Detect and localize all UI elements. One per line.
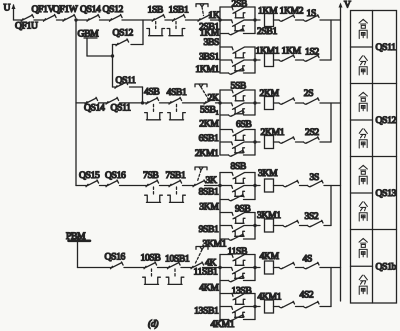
wire rung2 seg4 group 3	[324, 225, 331, 227]
wire rail B lower group 4	[254, 294, 256, 320]
wire branch mid right group 3	[244, 185, 255, 187]
wire QS11 row right	[130, 86, 143, 88]
contact aux rung1 group 3	[283, 180, 299, 186]
wire branch mid group 4	[220, 267, 232, 269]
wire rung2 seg1 group 1	[255, 59, 260, 61]
wire branch mid group 1	[220, 19, 232, 21]
button actuator 4K	[196, 247, 208, 250]
coil 4KM	[265, 261, 274, 274]
wire PBM drop	[77, 241, 79, 268]
wire rail B upper group 2	[254, 90, 256, 115]
svg-text:1KM2: 1KM2	[280, 5, 304, 16]
wire top bus seg6	[122, 19, 152, 21]
contact 1K	[198, 14, 211, 21]
wire branch mid2 left group 3	[220, 225, 232, 227]
wire branch top1 left group 2	[220, 89, 232, 91]
button actuator 2K	[195, 84, 207, 87]
contact 1S	[304, 15, 320, 21]
switch contact QS14	[87, 14, 100, 21]
wire corner drop group 1	[330, 20, 332, 60]
wire corner drop group 4	[330, 268, 332, 307]
wire feed3 seg4	[160, 185, 170, 187]
wire feed2 seg1	[76, 102, 85, 104]
wire rail A group 1	[219, 7, 221, 73]
wire branch top2 right group 4	[245, 293, 256, 295]
wire branch mid2 left group 4	[220, 306, 232, 308]
svg-text:QF1U: QF1U	[15, 21, 38, 32]
wire feed3 seg1	[76, 185, 86, 187]
wire branch mid right group 4	[244, 267, 255, 269]
breaker contact QF1V	[44, 14, 57, 21]
svg-text:8SB1: 8SB1	[199, 187, 219, 198]
svg-text:2KM: 2KM	[260, 88, 280, 99]
svg-text:2S: 2S	[304, 88, 313, 99]
svg-text:13SB: 13SB	[232, 285, 252, 296]
wire top bus seg10	[220, 19, 232, 21]
contact aux rung1 group 4	[279, 262, 295, 268]
wire branch top2 left group 3	[220, 212, 232, 214]
svg-text:5SB: 5SB	[231, 80, 246, 91]
svg-text:3S2: 3S2	[305, 211, 319, 222]
contact rung2 group 1	[279, 55, 295, 61]
wire feed3 seg6	[205, 185, 221, 187]
pushbutton top2 group 2	[232, 130, 244, 136]
wire GBM to mid rail	[87, 55, 113, 57]
svg-text:9SB: 9SB	[235, 204, 250, 215]
wire top bus seg7	[165, 19, 173, 21]
wire branch top1 left group 1	[220, 6, 232, 8]
wire branch top2 left group 1	[220, 46, 232, 48]
junction QS11row/feed2	[141, 101, 144, 104]
switch contact QS16 feed4	[111, 262, 124, 269]
wire branch bot1 left group 3	[220, 199, 229, 201]
svg-text:11SB1: 11SB1	[193, 267, 218, 278]
svg-text:3KM: 3KM	[258, 168, 278, 179]
svg-text:4S2: 4S2	[300, 289, 314, 300]
wire rail B lower group 3	[254, 213, 256, 240]
relay contact bot1 group 4	[229, 275, 245, 281]
wire rung1 seg4 group 2	[320, 102, 341, 104]
svg-text:3KM1: 3KM1	[257, 210, 281, 221]
contact rung2 group 4	[279, 301, 295, 307]
wire QS11 row	[113, 86, 116, 88]
table group divider y229.5	[351, 229, 397, 231]
svg-text:QS12: QS12	[103, 4, 124, 15]
wire rail A group 2	[219, 90, 221, 155]
wire branch bot2 right group 3	[244, 238, 256, 240]
wire branch mid2 right group 1	[244, 59, 255, 61]
wire branch bot2 right group 1	[244, 72, 256, 74]
wire rail B upper group 3	[254, 173, 256, 200]
junction rail B feed group 2	[253, 101, 256, 104]
wire rung2 seg3 group 3	[300, 225, 308, 227]
coil 2KM1	[265, 136, 274, 149]
wire branch top1 right group 1	[245, 6, 256, 8]
svg-text:1KM1: 1KM1	[195, 64, 219, 75]
wire branch bot1 right group 1	[244, 33, 256, 35]
wire top bus seg3	[57, 19, 64, 21]
svg-text:6SB1: 6SB1	[199, 133, 219, 144]
contact 3K	[193, 180, 206, 187]
svg-text:1KM: 1KM	[258, 5, 278, 16]
wire branch bot2 left group 4	[220, 319, 229, 321]
wire branch bot1 left group 1	[220, 33, 229, 35]
table cell close (he-zha) group 1	[359, 19, 367, 28]
wire QS12 row right	[131, 44, 143, 46]
svg-text:1S2: 1S2	[305, 47, 319, 58]
svg-text:4KM1: 4KM1	[258, 291, 282, 302]
wire branch bot1 left group 2	[220, 114, 229, 116]
pushbutton 4SB	[146, 97, 159, 104]
wire feed3 seg2	[100, 185, 107, 187]
wire rung1 seg4 group 4	[320, 267, 341, 269]
wire top bus seg2	[34, 19, 44, 21]
switch contact QS16	[106, 180, 119, 187]
table cell open (fen-zha) group 1	[359, 56, 367, 65]
wire rung2 seg4 group 4	[320, 306, 331, 308]
wire rung1 seg1 group 1	[255, 19, 260, 21]
wire rung1 seg2 group 4	[274, 267, 280, 269]
pushbutton mid group 4	[232, 268, 244, 274]
svg-text:10SB: 10SB	[141, 253, 161, 264]
pushbutton mid group 2	[232, 103, 244, 109]
wire rung1 seg2 group 1	[274, 19, 280, 21]
junction rail B rung2 group 2	[253, 140, 256, 143]
table cell open (fen-zha) group 3	[359, 202, 367, 211]
wire feed2 seg3	[120, 102, 147, 104]
svg-text:QF1V: QF1V	[32, 4, 55, 15]
contact 2S	[304, 98, 320, 104]
pushbutton 4SB1	[169, 97, 182, 104]
wire rung2 seg2 group 4	[274, 306, 280, 308]
pushbutton 10SB1	[168, 262, 181, 269]
pushbutton mid2 group 3	[232, 226, 244, 232]
svg-text:(d): (d)	[148, 319, 158, 330]
svg-text:2KM1: 2KM1	[261, 127, 285, 138]
pushbutton mid2 group 1	[232, 60, 244, 66]
wire branch top1 right group 3	[245, 172, 256, 174]
switch contact QS12	[110, 14, 123, 21]
wire top bus seg9	[211, 19, 221, 21]
pushbutton 1SB	[152, 14, 165, 21]
wire right bus V	[340, 7, 342, 301]
table sub divider y47.0	[351, 46, 373, 48]
wire rung1 seg2 group 3	[274, 185, 284, 187]
contact 4K	[191, 262, 204, 269]
coil 3KM	[265, 179, 274, 192]
svg-text:1KM1: 1KM1	[256, 45, 280, 56]
table cell open (fen-zha) group 4	[359, 275, 367, 284]
wire rung1 seg4 group 3	[324, 185, 341, 187]
svg-text:4SB1: 4SB1	[167, 87, 187, 98]
wire rung1 seg1 group 4	[255, 267, 260, 269]
wire branch bot1 left group 4	[220, 280, 229, 282]
wire branch mid right group 2	[244, 102, 255, 104]
wire rung2 seg1 group 3	[255, 225, 260, 227]
pushbutton mid2 group 2	[232, 142, 244, 148]
junction rail B feed group 1	[253, 18, 256, 21]
relay contact bot2 group 2	[229, 150, 245, 156]
svg-text:2SB: 2SB	[232, 0, 247, 9]
junction rail B rung2 group 4	[253, 305, 256, 308]
wire rung2 seg3 group 1	[296, 59, 304, 61]
svg-text:QS14: QS14	[84, 102, 105, 113]
wire rung2 seg4 group 2	[320, 141, 331, 143]
wire feed2 seg4	[160, 102, 170, 104]
wire branch mid group 2	[220, 102, 232, 104]
contact 1KM2 rung1 group 1	[279, 15, 295, 21]
wire branch top2 right group 3	[245, 212, 256, 214]
svg-text:QS11: QS11	[376, 42, 397, 53]
wire drop to feed2 x142.5	[142, 87, 144, 103]
switch contact QS12 row2	[116, 39, 129, 46]
contact rung2 group 2	[279, 137, 295, 143]
pushbutton top2 group 4	[232, 294, 244, 300]
wire branch bot1 right group 2	[244, 114, 256, 116]
contact 3S2	[308, 220, 324, 226]
svg-text:3KM: 3KM	[199, 202, 219, 213]
wire feed3 seg5	[183, 185, 194, 187]
wire rail B lower group 1	[254, 47, 256, 73]
switch contact QS11 row3	[115, 81, 128, 88]
wire branch mid2 left group 2	[220, 141, 232, 143]
wire rung1 seg3 group 4	[296, 267, 304, 269]
wire rung2 seg3 group 4	[296, 306, 304, 308]
svg-text:5SB₁: 5SB₁	[200, 105, 218, 116]
breaker contact QF1U	[21, 14, 34, 21]
wire rung1 seg3 group 3	[300, 185, 308, 187]
wire branch mid2 right group 3	[244, 225, 255, 227]
wire branch top1 left group 3	[220, 172, 232, 174]
pushbutton 8SB	[232, 173, 244, 179]
wire rung1 seg4 group 1	[320, 19, 341, 21]
svg-text:1S: 1S	[307, 8, 316, 19]
wire U arrow riser	[13, 5, 15, 20]
svg-text:1K: 1K	[208, 10, 219, 21]
wire rung1 seg3 group 2	[296, 102, 304, 104]
svg-text:4KM: 4KM	[199, 283, 219, 294]
pushbutton 7SB	[146, 180, 159, 187]
svg-text:4KM1: 4KM1	[211, 319, 235, 330]
svg-text:11SB: 11SB	[228, 246, 248, 257]
wire rung2 seg1 group 2	[255, 141, 260, 143]
svg-text:3K: 3K	[206, 175, 217, 186]
table group divider y83.5	[351, 83, 397, 85]
relay contact bot1 group 1	[229, 28, 245, 34]
relay contact bot2 group 4	[229, 314, 245, 320]
svg-text:QS15: QS15	[79, 170, 100, 181]
svg-text:7SB: 7SB	[143, 170, 158, 181]
wire top bus seg1	[14, 19, 22, 21]
junction rail B feed group 4	[253, 266, 256, 269]
svg-text:QS14: QS14	[80, 4, 101, 15]
wire top bus seg11	[245, 19, 256, 21]
button actuator 1K	[196, 4, 208, 7]
wire branch bot2 right group 4	[244, 319, 256, 321]
svg-text:3BS: 3BS	[204, 37, 219, 48]
wire rail B upper group 1	[254, 7, 256, 34]
svg-text:8SB: 8SB	[231, 161, 246, 172]
svg-text:10SB1: 10SB1	[165, 254, 190, 265]
wire corner drop group 3	[330, 186, 332, 226]
coil 4KM1	[265, 300, 274, 313]
svg-text:4KM: 4KM	[260, 251, 280, 262]
wire rung2 seg4 group 1	[320, 59, 331, 61]
wire rung2 seg2 group 3	[274, 225, 284, 227]
svg-text:QS16: QS16	[105, 252, 126, 263]
svg-text:QS12: QS12	[376, 115, 397, 126]
svg-text:V: V	[344, 0, 351, 11]
contact 4S	[304, 262, 320, 268]
table sub divider y266.2	[351, 265, 373, 267]
table sub divider y120.0	[351, 119, 373, 121]
wire rung1 seg2 group 2	[274, 102, 280, 104]
wire feed4 seg2	[124, 267, 144, 269]
svg-text:QS11: QS11	[116, 75, 137, 86]
contact 2K	[204, 97, 217, 104]
svg-text:U: U	[4, 3, 11, 14]
pushbutton 11SB	[232, 255, 244, 261]
wire feed4 seg5	[203, 267, 221, 269]
wire riser to bus x143	[142, 20, 144, 45]
wire branch mid group 3	[220, 185, 232, 187]
svg-text:2KM: 2KM	[199, 119, 219, 130]
junction rail A feed group 3	[218, 184, 221, 187]
switch contact QS15	[86, 180, 99, 187]
junction rail B rung2 group 3	[253, 224, 256, 227]
wire feed2 seg5	[183, 102, 205, 104]
pushbutton 5SB	[232, 90, 244, 96]
svg-text:2KM1: 2KM1	[195, 148, 219, 159]
wire branch top2 left group 2	[220, 129, 232, 131]
switch contact QS14 feed2	[85, 97, 98, 104]
wire GBM drop	[86, 38, 88, 56]
wire rail B upper group 4	[254, 255, 256, 281]
junction rail B rung2 group 1	[253, 58, 256, 61]
wire top bus seg4	[76, 19, 88, 21]
wire rung1 seg1 group 2	[255, 102, 260, 104]
junction rail A feed group 1	[218, 18, 221, 21]
table sub divider y193.0	[351, 192, 373, 194]
wire GBM underline	[84, 37, 97, 39]
wire feed4 seg3	[158, 267, 168, 269]
svg-text:3S: 3S	[310, 172, 319, 183]
wire left main vertical	[75, 20, 77, 186]
wire branch bot2 left group 2	[220, 154, 229, 156]
wire branch bot2 right group 2	[244, 154, 256, 156]
contact 3S	[308, 180, 324, 186]
svg-text:13SB1: 13SB1	[194, 306, 219, 317]
wire rung2 seg1 group 4	[255, 306, 260, 308]
wire mid rail vertical	[112, 45, 114, 88]
wire feed4 seg4	[181, 267, 191, 269]
wire branch top1 right group 2	[245, 89, 256, 91]
wire rail B lower group 2	[254, 130, 256, 156]
svg-text:1SB: 1SB	[148, 5, 163, 16]
svg-text:9SB1: 9SB1	[199, 224, 219, 235]
contact aux rung1 group 2	[279, 98, 295, 104]
table outer frame	[351, 11, 397, 304]
junction bus/left vertical	[74, 18, 77, 21]
arrowhead V	[339, 3, 343, 8]
svg-text:3BS1: 3BS1	[199, 52, 219, 63]
table cell close (he-zha) group 4	[359, 238, 367, 247]
wire top bus seg8	[186, 19, 199, 21]
svg-text:1SB1: 1SB1	[169, 5, 189, 16]
svg-text:4SB: 4SB	[144, 87, 159, 98]
wire top bus seg5	[100, 19, 110, 21]
pushbutton 7SB1	[169, 180, 182, 187]
contact rung2 group 3	[283, 220, 299, 226]
wire branch bot1 right group 3	[244, 199, 256, 201]
breaker contact QF1W	[63, 14, 76, 21]
pushbutton 1SB1	[173, 14, 186, 21]
junction GBM tap	[111, 54, 114, 57]
wire rung2 seg3 group 2	[296, 141, 304, 143]
wire branch bot2 left group 3	[220, 238, 229, 240]
wire branch mid right group 1	[244, 19, 255, 21]
table cell close (he-zha) group 2	[359, 92, 367, 101]
wire branch top2 left group 4	[220, 293, 232, 295]
pushbutton mid group 3	[232, 186, 244, 192]
switch contact QS11 feed2	[106, 97, 119, 104]
wire branch top1 left group 4	[220, 254, 232, 256]
junction rail A feed group 4	[218, 266, 221, 269]
svg-text:1KM: 1KM	[282, 45, 302, 56]
coil 1KM	[265, 14, 274, 27]
button actuator 3K	[195, 167, 207, 170]
svg-text:2K: 2K	[208, 93, 219, 104]
wire branch top1 right group 4	[245, 254, 256, 256]
coil 2KM	[265, 97, 274, 110]
pushbutton mid2 group 4	[232, 307, 244, 313]
relay contact bot1 group 3	[229, 194, 245, 200]
relay contact bot2 group 1	[229, 68, 245, 74]
wire branch mid2 right group 4	[244, 306, 255, 308]
svg-text:6SB: 6SB	[236, 119, 251, 130]
wire corner drop group 2	[330, 103, 332, 142]
pushbutton top2 group 1	[232, 47, 244, 53]
wire rung2 seg2 group 2	[274, 141, 280, 143]
pushbutton mid group 1	[232, 20, 244, 26]
contact 4S2	[304, 301, 320, 307]
wire rung1 seg1 group 3	[255, 185, 260, 187]
svg-text:QS1b: QS1b	[376, 261, 397, 272]
table cell close (he-zha) group 3	[359, 165, 367, 174]
wire branch top2 right group 1	[245, 46, 256, 48]
svg-text:4S: 4S	[303, 254, 312, 265]
pushbutton 10SB	[144, 262, 157, 269]
contact 2S2	[304, 137, 320, 143]
wire rail A group 3	[219, 173, 221, 240]
relay contact bot1 group 2	[229, 110, 245, 116]
wire rung1 seg3 group 1	[296, 19, 304, 21]
junction rail A feed group 2	[218, 101, 221, 104]
wire feed2 seg2	[99, 102, 107, 104]
svg-text:QS16: QS16	[105, 170, 126, 181]
wire branch bot2 left group 1	[220, 72, 229, 74]
wire feed2 seg6	[216, 102, 221, 104]
pushbutton 2SB	[232, 7, 244, 13]
relay contact bot2 group 3	[229, 234, 245, 240]
coil 3KM1	[265, 219, 274, 232]
junction rail B feed group 3	[253, 184, 256, 187]
table cell open (fen-zha) group 2	[359, 129, 367, 138]
svg-text:7SB1: 7SB1	[166, 170, 186, 181]
contact 1S2	[304, 55, 320, 61]
arrowhead U	[12, 4, 16, 9]
wire branch top2 right group 2	[245, 129, 256, 131]
